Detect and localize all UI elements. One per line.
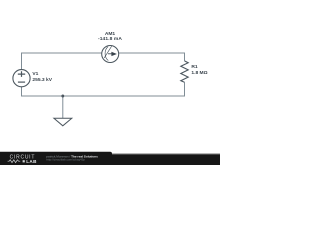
wire from V1 positive terminal up and right to AM1 left pin <box>22 53 103 70</box>
svg-text:255.3 kV: 255.3 kV <box>32 77 52 83</box>
junction node <box>61 95 64 98</box>
svg-text:LAB: LAB <box>26 159 37 164</box>
svg-text:V1: V1 <box>32 71 38 77</box>
resistor R1 <box>181 61 188 82</box>
svg-text:R1: R1 <box>191 64 198 70</box>
ammeter AM1 <box>102 46 119 63</box>
ground <box>54 118 72 126</box>
wire from R1 bottom down and left along bottom to junction <box>63 82 185 96</box>
svg-text:http://circuitlab.com/c/cvg43p: http://circuitlab.com/c/cvg43p <box>46 157 85 161</box>
wire stub from junction down to ground <box>62 96 64 118</box>
svg-text:AM1: AM1 <box>105 31 116 37</box>
svg-text:-141.8 mA: -141.8 mA <box>98 36 122 42</box>
wire from junction left and up to V1 negative terminal <box>22 87 63 96</box>
voltage source V1 <box>13 70 30 87</box>
wire from AM1 right pin to top-right corner down to R1 top <box>119 53 185 61</box>
svg-text:1.8 MΩ: 1.8 MΩ <box>191 70 207 76</box>
